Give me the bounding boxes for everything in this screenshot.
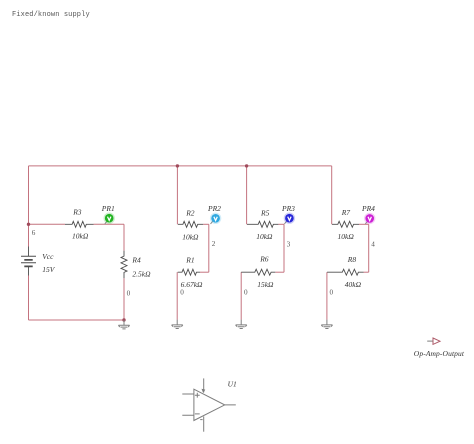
ground branch3 — [236, 320, 247, 329]
svg-text:Op-Amp-Output: Op-Amp-Output — [414, 349, 465, 358]
wire branch2 row1 stub — [203, 223, 209, 225]
junction dot branch3 top — [245, 164, 248, 167]
wire branch2 row2 stub — [200, 271, 209, 273]
op-amp U1 — [182, 378, 236, 431]
svg-text:R2: R2 — [185, 208, 195, 217]
probe PR4 — [364, 213, 375, 224]
svg-text:R3: R3 — [72, 207, 82, 216]
svg-text:R7: R7 — [341, 208, 351, 217]
wire bottom rail — [29, 319, 125, 321]
svg-text:3: 3 — [287, 240, 291, 248]
svg-text:PR3: PR3 — [281, 204, 295, 213]
wire branch4 ground vertical — [326, 272, 328, 320]
resistor R7 — [332, 221, 359, 227]
wire branch4 drop — [331, 166, 333, 224]
junction dot branch2 top — [176, 164, 179, 167]
resistor R3 — [65, 221, 94, 227]
svg-text:PR2: PR2 — [207, 204, 221, 213]
svg-text:4: 4 — [371, 240, 375, 248]
wire branch3 row1 stub — [278, 223, 284, 225]
svg-text:15V: 15V — [42, 265, 56, 274]
svg-text:Fixed/known supply: Fixed/known supply — [12, 11, 90, 19]
svg-text:10kΩ: 10kΩ — [256, 232, 273, 241]
junction dot bottom ground — [122, 318, 125, 321]
svg-text:R5: R5 — [260, 208, 270, 217]
svg-text:0: 0 — [180, 289, 184, 297]
wire branch3 mid vertical — [283, 224, 285, 272]
probe PR3 — [284, 213, 295, 224]
wire top rail — [29, 165, 332, 167]
svg-text:PR4: PR4 — [361, 204, 375, 213]
svg-text:R8: R8 — [347, 255, 357, 264]
wire branch3 drop — [246, 166, 248, 224]
junction node 6 dot — [27, 223, 30, 226]
probe PR2 — [210, 213, 221, 224]
wire branch1 row left — [29, 223, 66, 225]
resistor R6 — [241, 269, 275, 275]
svg-text:0: 0 — [244, 289, 248, 297]
resistor R2 — [178, 221, 203, 227]
wire branch4 row2 stub — [364, 271, 369, 273]
off-page connector Op-Amp-Output — [427, 338, 440, 344]
op-amp top pin arrowhead — [202, 389, 206, 393]
svg-text:Vcc: Vcc — [42, 252, 54, 261]
svg-text:10kΩ: 10kΩ — [182, 233, 199, 242]
wire branch4 row1 stub — [359, 223, 369, 225]
svg-text:PR1: PR1 — [101, 204, 115, 213]
ground branch1 — [118, 320, 129, 329]
svg-text:R4: R4 — [131, 256, 141, 265]
wire left vertical upper — [28, 166, 30, 247]
svg-text:R6: R6 — [259, 255, 269, 264]
svg-text:0: 0 — [330, 289, 334, 297]
svg-text:R1: R1 — [185, 256, 194, 265]
wire branch3 row2 stub — [275, 271, 284, 273]
wire branch3 ground vertical — [240, 272, 242, 320]
svg-text:2: 2 — [212, 240, 216, 248]
wire branch1 vertical above R4 — [123, 224, 125, 250]
svg-text:10kΩ: 10kΩ — [338, 232, 355, 241]
wire branch1 vertical below R4 — [123, 278, 125, 320]
battery V1 Vcc — [21, 247, 36, 276]
wire left vertical lower — [28, 276, 30, 321]
svg-text:40kΩ: 40kΩ — [345, 280, 362, 289]
resistor R5 — [247, 221, 278, 227]
resistor R8 — [327, 269, 363, 275]
wire branch1 row right — [94, 223, 125, 225]
svg-text:15kΩ: 15kΩ — [257, 280, 274, 289]
resistor R1 — [178, 269, 200, 275]
svg-text:6.67kΩ: 6.67kΩ — [181, 280, 203, 289]
probe PR1 — [104, 213, 115, 224]
wire branch2 ground vertical — [176, 272, 178, 320]
ground branch4 — [321, 320, 332, 329]
ground branch2 — [172, 320, 183, 329]
wire branch2 mid vertical — [208, 224, 210, 272]
svg-text:U1: U1 — [228, 379, 237, 388]
wire branch4 mid vertical — [368, 224, 370, 272]
svg-text:2.5kΩ: 2.5kΩ — [132, 269, 151, 278]
resistor R4 — [121, 251, 127, 279]
svg-text:10kΩ: 10kΩ — [72, 232, 89, 241]
svg-text:6: 6 — [32, 229, 36, 237]
wire branch2 drop — [176, 166, 178, 224]
svg-text:0: 0 — [127, 290, 131, 298]
